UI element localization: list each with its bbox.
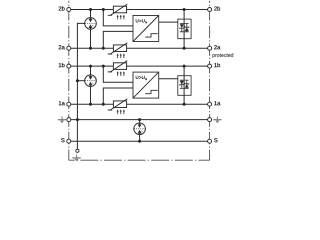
gas discharge tube F3 (earth-S) [134, 123, 146, 135]
junction node 1b / F2 [89, 65, 92, 68]
junction node 2b / F1 [89, 8, 92, 11]
label 2a right [214, 45, 220, 49]
suppressor diode box V1 [178, 19, 191, 39]
terminal earth right [208, 118, 212, 122]
trigger circuit U2 (U&gt;UN) [133, 72, 159, 98]
terminal 2a left [67, 46, 71, 50]
junction node 1a / V2 [183, 103, 186, 106]
varistor RV1 on line 2b [108, 4, 128, 19]
varistor RV3 on line 1b [108, 61, 128, 76]
trigger circuit U1 (U&gt;UN) [133, 16, 159, 42]
junction node earth rail / F3 [138, 118, 141, 121]
terminal S right [208, 139, 212, 143]
gas discharge tube F1 (2b-2a) [85, 18, 97, 30]
boundary dash-dot left [68, 1, 70, 160]
wire U1 output to diode box V1 [159, 21, 178, 23]
wire line 1a [69, 103, 210, 105]
junction node 1a / F2 [89, 103, 92, 106]
terminal 1a left [67, 102, 71, 106]
junction node 2a / V1 [183, 47, 186, 50]
label 1b left [59, 63, 65, 67]
junction node 2a / F1 [89, 47, 92, 50]
wire line 1b [69, 65, 210, 67]
terminal 1b right [208, 64, 212, 68]
varistor RV4 on line 1a [108, 99, 128, 114]
boundary dash-dot bottom [69, 159, 210, 161]
wire U2 output to diode box V2 [159, 78, 178, 80]
gas discharge tube F2 (1b-1a) [85, 75, 97, 87]
label 2b left [59, 6, 65, 10]
wire line 2a [69, 47, 210, 49]
junction node 1b / sense [102, 65, 105, 68]
wire line S [69, 140, 210, 142]
wire sense 2b to U1 upper input [103, 10, 133, 26]
wire protected vertical 2b-2a through V1 [183, 10, 185, 49]
wire earth rail [69, 119, 210, 121]
wire line 2b [69, 9, 210, 11]
junction node S / F3 [138, 140, 141, 143]
terminal 2b left [67, 8, 71, 12]
junction node 2a / sense [102, 47, 105, 50]
wire F3 vertical earth-S [139, 120, 141, 142]
wire F2 centre electrode [77, 80, 85, 82]
label 1a right [214, 101, 220, 105]
wire earth rail to PE terminal [76, 120, 78, 150]
varistor RV2 on line 2a [108, 43, 128, 58]
wire protected vertical 1b-1a through V2 [183, 66, 185, 104]
label 2a left [59, 45, 65, 49]
terminal S left [67, 139, 71, 143]
terminal 1a right [208, 102, 212, 106]
wire sense 1a to U2 lower input [103, 88, 133, 104]
wire F1 centre electrode to earth rail [77, 23, 85, 119]
terminal 2a right [208, 46, 212, 50]
ground symbol left rail [58, 116, 66, 123]
wire F2 vertical 1b-1a [90, 66, 92, 104]
label 2b right [214, 6, 220, 10]
ground symbol right rail [213, 116, 221, 123]
junction node earth rail / tap [76, 118, 79, 121]
ground symbol PE bottom [72, 155, 80, 162]
suppressor diode box V2 [178, 76, 191, 96]
terminal earth left [67, 118, 71, 122]
junction node 2b / V1 [183, 8, 186, 11]
junction node 1a / sense [102, 103, 105, 106]
junction node 1b / V2 [183, 65, 186, 68]
terminal 1b left [67, 64, 71, 68]
boundary dash-dot right [209, 1, 211, 160]
junction node 2b / sense [102, 8, 105, 11]
terminal PE bottom [76, 149, 79, 152]
label S left [61, 138, 64, 142]
label S right [214, 138, 217, 142]
terminal 2b right [208, 8, 212, 12]
label 1a left [59, 101, 65, 105]
wire sense 2a to U1 lower input [103, 31, 133, 48]
junction node F2 tap [76, 79, 79, 82]
wire sense 1b to U2 upper input [103, 66, 133, 82]
label 1b right [214, 63, 220, 67]
label protected [213, 53, 234, 58]
wire F1 vertical 2b-2a [90, 10, 92, 49]
